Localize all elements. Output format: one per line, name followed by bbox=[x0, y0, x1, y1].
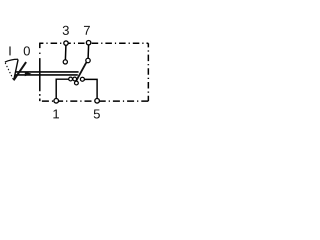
terminal 3 post bbox=[64, 41, 68, 45]
operating lever bbox=[14, 62, 27, 80]
contact circle (under terminal 3) bbox=[63, 60, 67, 64]
wire: contact row to terminal 1 bbox=[56, 79, 69, 98]
label I (position) bbox=[9, 46, 10, 55]
contact circle D (row, right) bbox=[80, 77, 84, 81]
stem terminal 3 bbox=[64, 45, 67, 60]
contact circle A (row, left) bbox=[69, 77, 73, 81]
terminal 5 post bbox=[95, 99, 100, 104]
contact circle B (row, middle) bbox=[73, 77, 77, 81]
case top edge bbox=[39, 42, 148, 44]
label terminal 3 bbox=[63, 26, 69, 35]
actuator lever arc bbox=[5, 59, 18, 62]
actuator lever dashed radius bbox=[5, 63, 13, 79]
blade end circle bbox=[75, 81, 79, 85]
label terminal 7 bbox=[84, 26, 90, 35]
label terminal 1 bbox=[53, 109, 59, 118]
terminal 1 post bbox=[54, 99, 59, 104]
linkage (mechanical double line) bbox=[15, 72, 79, 75]
stem terminal 7 bbox=[87, 45, 90, 59]
case left edge (dash, dot, long solid, dot, dash) bbox=[39, 43, 41, 101]
label 0 (position) bbox=[24, 46, 30, 55]
label terminal 5 bbox=[94, 109, 100, 118]
case bottom edge bbox=[39, 100, 148, 102]
case right edge bbox=[147, 43, 149, 101]
switch blade bbox=[76, 62, 87, 81]
linkage arrowhead bbox=[25, 71, 32, 76]
wire: contact row to terminal 5 bbox=[84, 79, 97, 98]
enclosure case outline (dash-dot box) bbox=[39, 43, 148, 101]
actuator lever solid radius bbox=[14, 60, 18, 80]
terminal 7 post bbox=[86, 41, 90, 45]
contact circle (under terminal 7) bbox=[86, 58, 90, 62]
